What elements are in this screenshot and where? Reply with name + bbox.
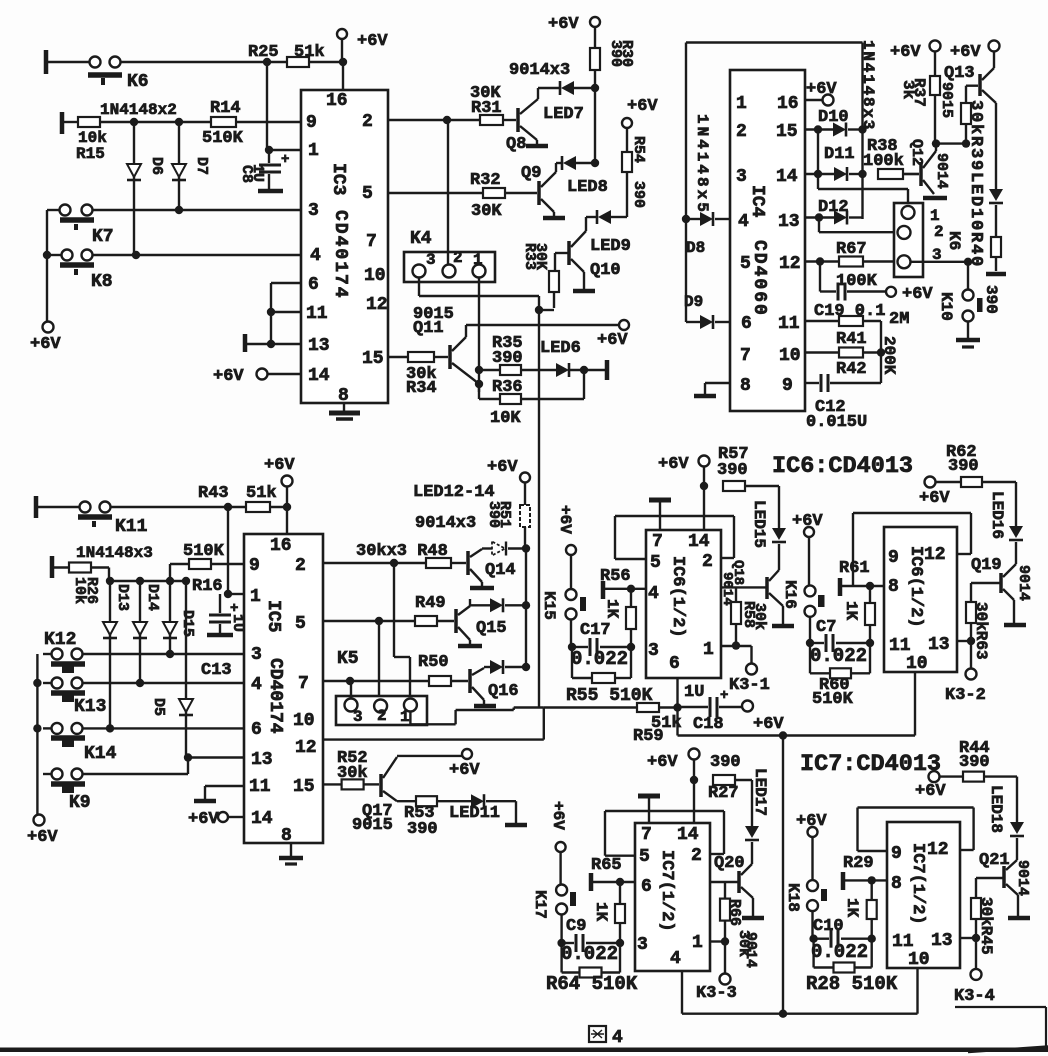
svg-text:6: 6	[669, 654, 680, 674]
svg-text:R54: R54	[630, 136, 647, 163]
IC4 pin13 row with D12	[805, 216, 834, 218]
svg-text:R14: R14	[210, 99, 241, 118]
LED9	[611, 216, 627, 218]
svg-text:+6V: +6V	[30, 335, 61, 354]
svg-text:K12: K12	[44, 630, 76, 650]
resistor R30 390 with +6V	[590, 17, 600, 27]
svg-text:1K: 1K	[603, 599, 621, 619]
capacitor C12 0.015U	[805, 382, 819, 384]
left +6V rail wire	[46, 210, 48, 322]
LED14	[484, 666, 490, 668]
wire pin1 row	[269, 149, 301, 151]
LED supply column	[525, 549, 527, 668]
svg-text:R61: R61	[839, 559, 870, 578]
svg-text:390: 390	[717, 461, 748, 480]
switch K11	[34, 496, 39, 518]
svg-text:5: 5	[362, 184, 373, 204]
svg-text:+6V: +6V	[919, 489, 950, 508]
svg-text:14: 14	[776, 167, 798, 187]
svg-text:390: 390	[982, 285, 1000, 314]
svg-text:6: 6	[308, 275, 319, 295]
svg-text:11: 11	[778, 314, 800, 334]
transistor Q11	[448, 345, 452, 369]
node pin2 K5 branch	[390, 559, 398, 567]
svg-text:1N4148x5: 1N4148x5	[693, 114, 711, 215]
svg-text:+6V: +6V	[357, 32, 388, 51]
resistor R48	[426, 558, 451, 568]
svg-text:1: 1	[250, 587, 261, 607]
svg-text:K16: K16	[781, 580, 799, 609]
svg-text:R16: R16	[192, 577, 223, 596]
wire to IC3 pin 16	[342, 62, 344, 90]
svg-text:R30: R30	[618, 40, 635, 67]
svg-text:C9: C9	[566, 917, 586, 936]
resistor R32 30K	[483, 188, 505, 198]
diode D7	[178, 122, 180, 210]
svg-text:LED11: LED11	[449, 804, 500, 823]
wire K5-3 stub	[350, 681, 352, 699]
IC6a pin6 stem	[676, 678, 678, 708]
resistor R49	[415, 616, 437, 626]
svg-text:+6V: +6V	[213, 367, 244, 386]
svg-text:6: 6	[741, 314, 752, 334]
svg-text:K3-3: K3-3	[696, 984, 737, 1003]
transistor Q9	[537, 181, 541, 205]
svg-text:13: 13	[778, 212, 800, 232]
switch K13	[52, 678, 63, 689]
node LED14	[522, 663, 530, 671]
switch K10	[967, 262, 969, 290]
wire Q17 collector +6V	[397, 755, 462, 757]
svg-text:510K: 510K	[183, 542, 225, 561]
svg-text:390: 390	[630, 181, 647, 208]
svg-text:9: 9	[249, 556, 260, 576]
node LED13	[522, 601, 530, 609]
svg-text:100K: 100K	[836, 272, 878, 291]
Q13 collector to +6V	[982, 68, 994, 80]
diode D14	[136, 577, 144, 585]
resistor R54 390 with +6V	[622, 118, 632, 128]
svg-text:3: 3	[736, 167, 747, 187]
svg-text:4: 4	[648, 584, 659, 604]
svg-text:LED15: LED15	[750, 500, 768, 548]
wire C18 node down to IC7 rail	[676, 708, 678, 736]
svg-text:K7: K7	[92, 227, 114, 247]
svg-text:4: 4	[251, 675, 262, 695]
svg-text:30kR45: 30kR45	[977, 897, 995, 955]
IC7a top rail bar	[638, 794, 660, 799]
wire K5-1 to main node	[409, 712, 411, 725]
wire R25 to +6V node	[309, 61, 343, 63]
svg-text:K5: K5	[337, 649, 359, 669]
svg-text:1U: 1U	[684, 683, 704, 702]
svg-text:5: 5	[639, 847, 650, 867]
resistor R41	[805, 351, 839, 353]
IC7b pin13 row to K3-4	[960, 937, 976, 939]
svg-text:1: 1	[400, 708, 410, 726]
svg-text:+6V: +6V	[647, 753, 678, 772]
svg-text:30kR39LED10R40: 30kR39LED10R40	[966, 100, 985, 268]
resistor 30k R63	[970, 583, 972, 602]
LED15	[772, 528, 786, 540]
node LED8	[591, 159, 599, 167]
svg-text:1K: 1K	[843, 898, 861, 918]
wire IC3 pin2 row	[388, 119, 480, 121]
svg-text:CD40174: CD40174	[330, 210, 350, 300]
svg-text:8: 8	[891, 874, 902, 894]
svg-text:D12: D12	[818, 198, 849, 217]
svg-text:390: 390	[710, 753, 741, 772]
IC7a feedback loop	[605, 810, 724, 812]
svg-text:Q15: Q15	[476, 619, 507, 638]
IC4 outer loop wire	[686, 41, 863, 43]
svg-text:IC3: IC3	[328, 163, 348, 195]
svg-text:C18: C18	[693, 715, 724, 734]
IC7a body	[635, 823, 710, 971]
resistor 30k R45	[975, 878, 977, 898]
capacitor C17 0.022	[600, 646, 631, 648]
resistor R16 510K	[169, 564, 171, 581]
resistor 1K	[619, 882, 621, 904]
node LED6 loop	[580, 366, 588, 374]
IC3 pins 6-11-13 tie	[271, 282, 301, 284]
svg-text:1: 1	[308, 141, 319, 161]
wire pin3 row	[47, 209, 60, 211]
resistor 1K	[869, 586, 871, 603]
IC6a feedback loop	[615, 515, 734, 517]
svg-text:2: 2	[453, 249, 463, 267]
svg-text:D8: D8	[686, 239, 705, 257]
diode D8	[682, 215, 690, 223]
svg-text:LED9: LED9	[590, 237, 631, 256]
svg-text:12: 12	[924, 545, 946, 565]
svg-text:LED18: LED18	[987, 785, 1005, 833]
svg-text:R36: R36	[492, 378, 523, 397]
svg-text:13: 13	[931, 931, 953, 951]
svg-text:390: 390	[492, 349, 523, 368]
LED8	[556, 162, 562, 164]
svg-text:0.022: 0.022	[810, 645, 867, 667]
ground at IC5 pin11	[205, 785, 244, 787]
svg-text:+: +	[720, 688, 728, 704]
svg-text:9014: 9014	[1014, 860, 1031, 896]
svg-text:12: 12	[366, 295, 388, 315]
ground at IC3 pin8	[343, 403, 345, 412]
node pin5 K5 branch	[375, 617, 383, 625]
svg-text:1N4148x3: 1N4148x3	[76, 544, 153, 562]
svg-text:LED7: LED7	[543, 105, 584, 124]
svg-text:2: 2	[295, 556, 306, 576]
svg-text:14: 14	[688, 532, 710, 552]
svg-text:D15: D15	[179, 610, 196, 637]
wire pin4 row	[47, 254, 61, 256]
resistor R14 510K	[211, 117, 236, 127]
node bottom rail	[779, 1010, 787, 1018]
resistor R26 10k	[50, 556, 55, 578]
svg-text:Q14: Q14	[485, 561, 516, 580]
svg-text:15: 15	[293, 777, 315, 797]
svg-text:R15: R15	[76, 145, 105, 163]
svg-text:390: 390	[959, 753, 990, 772]
svg-text:K8: K8	[91, 272, 113, 292]
svg-text:9014: 9014	[933, 153, 950, 189]
transistor Q10	[567, 241, 571, 265]
svg-text:100k: 100k	[863, 152, 904, 171]
resistor R67 100K	[839, 257, 863, 267]
resistor R43 51k	[246, 502, 270, 512]
node D13 pin6	[106, 724, 114, 732]
svg-text:R51: R51	[496, 501, 513, 528]
svg-text:9: 9	[306, 113, 317, 133]
capacitor C18 1U	[679, 706, 708, 708]
svg-text:+6V: +6V	[487, 458, 518, 477]
LED17	[745, 826, 759, 838]
resistor R25 51k	[287, 57, 309, 67]
svg-text:1: 1	[736, 94, 747, 114]
svg-text:13: 13	[251, 750, 273, 770]
svg-text:+6V: +6V	[27, 828, 58, 847]
wire K5-2 branch	[378, 621, 380, 700]
svg-text:+6V: +6V	[806, 80, 837, 99]
wire K5-1 branch from pin2	[393, 563, 395, 657]
left +6V rail	[36, 654, 38, 815]
svg-text:+6V: +6V	[658, 455, 689, 474]
node R65	[616, 878, 624, 886]
wire K4-1 branch	[478, 278, 480, 392]
resistor R31 30K	[480, 115, 503, 125]
node R61	[866, 582, 874, 590]
R62 390 with +6V	[925, 477, 936, 488]
node D6 top	[130, 118, 138, 126]
svg-text:200K: 200K	[880, 336, 898, 375]
svg-text:R43: R43	[198, 484, 229, 503]
svg-text:C17: C17	[580, 621, 611, 640]
svg-text:1: 1	[703, 640, 714, 660]
resistor R64 510K loop	[560, 943, 562, 973]
svg-text:K10: K10	[937, 292, 955, 321]
svg-text:13: 13	[928, 635, 950, 655]
resistor R35 390	[479, 369, 500, 371]
switch K14	[52, 723, 63, 734]
svg-text:12: 12	[779, 254, 801, 274]
resistor R34 30k	[388, 356, 408, 358]
ground after LED11	[515, 801, 517, 823]
svg-text:0.022: 0.022	[571, 648, 628, 670]
svg-text:30k: 30k	[751, 603, 768, 630]
wire Q11 collector +6V row	[466, 324, 619, 326]
IC6b feedback loop	[853, 512, 971, 514]
svg-text:R67: R67	[836, 240, 867, 259]
svg-text:510K: 510K	[202, 129, 244, 148]
capacitor C9 0.022	[586, 942, 620, 944]
svg-text:R29: R29	[843, 854, 874, 873]
resistor R38 100k	[878, 169, 903, 179]
svg-text:IC7:CD4013: IC7:CD4013	[800, 751, 941, 778]
ground at IC4 pin8	[705, 382, 730, 384]
svg-text:2: 2	[702, 552, 713, 572]
svg-text:9015: 9015	[938, 82, 955, 118]
+6V R27 390	[689, 749, 700, 760]
svg-text:15: 15	[776, 122, 798, 142]
svg-text:1N4148x2: 1N4148x2	[100, 101, 177, 119]
svg-text:12: 12	[295, 738, 317, 758]
LED18	[1010, 822, 1024, 834]
svg-text:+6V: +6V	[597, 331, 628, 350]
node R25-C8	[263, 58, 271, 66]
svg-text:2: 2	[362, 112, 373, 132]
svg-text:9014: 9014	[719, 572, 735, 606]
connector K4	[404, 252, 495, 282]
+6V bottom left terminal	[34, 815, 45, 826]
bottom border line	[0, 1048, 1048, 1053]
svg-text:7: 7	[652, 532, 663, 552]
LED16	[1009, 526, 1023, 538]
IC6a pin1 row to K3-1	[721, 645, 752, 647]
resistor R39	[961, 103, 971, 124]
IC4 pin15 row with D10	[805, 128, 833, 130]
LED12 dashed	[482, 547, 492, 549]
resistor R59 51k on main wire	[544, 706, 637, 708]
svg-text:K6: K6	[945, 231, 963, 250]
svg-text:LED6: LED6	[540, 339, 581, 358]
svg-text:K17: K17	[531, 890, 549, 919]
svg-text:4: 4	[612, 1028, 623, 1048]
svg-text:D10: D10	[818, 108, 849, 127]
switch K6	[44, 50, 49, 74]
svg-text:1K: 1K	[842, 601, 860, 621]
svg-text:+6V: +6V	[915, 782, 946, 801]
svg-text:16: 16	[270, 536, 292, 556]
node pin11	[868, 935, 876, 943]
svg-text:Q20: Q20	[714, 854, 745, 873]
svg-text:R59: R59	[633, 727, 664, 746]
svg-text:30k: 30k	[337, 764, 368, 783]
node pin3	[627, 643, 635, 651]
svg-text:5: 5	[650, 553, 661, 573]
svg-text:+: +	[281, 152, 289, 168]
R44 390 with +6V	[929, 771, 940, 782]
svg-text:CD40174: CD40174	[265, 658, 285, 734]
LED11	[471, 794, 484, 808]
node +6V pin16	[339, 58, 347, 66]
resistor R51 390 with +6V	[520, 473, 530, 483]
svg-text:8: 8	[888, 577, 899, 597]
IC4 pin12 row	[805, 260, 839, 262]
svg-text:10: 10	[908, 950, 930, 970]
transistor Q8	[516, 108, 520, 132]
IC3 CD40174 body	[301, 90, 388, 403]
caption figure 4	[589, 1026, 606, 1042]
svg-text:7: 7	[366, 232, 377, 252]
resistor R15 10k	[60, 112, 65, 134]
svg-text:D9: D9	[684, 293, 703, 311]
switch K18	[807, 880, 818, 891]
svg-text:IC4: IC4	[747, 185, 767, 218]
wire IC5 pin5 row	[323, 620, 415, 622]
svg-text:K14: K14	[84, 744, 117, 764]
svg-text:K6: K6	[127, 72, 149, 92]
wire to R36	[478, 384, 480, 399]
node pin1	[224, 590, 232, 598]
svg-text:16: 16	[777, 94, 799, 114]
node pin2 K4 branch	[443, 116, 451, 124]
svg-text:Q12: Q12	[908, 139, 925, 166]
svg-text:+6V: +6V	[264, 456, 295, 475]
Q13 emitter to LED10	[982, 90, 996, 103]
transistor Q17 9015	[379, 774, 383, 797]
svg-text:Q8: Q8	[506, 135, 526, 154]
node C8	[265, 146, 273, 154]
+6V supply top	[337, 29, 347, 39]
svg-text:1U: 1U	[229, 614, 246, 632]
diode D6	[133, 122, 135, 255]
svg-text:0.015U: 0.015U	[806, 413, 867, 432]
resistor R53 390	[397, 800, 416, 802]
svg-text:6: 6	[641, 877, 652, 897]
svg-text:390: 390	[948, 457, 979, 476]
node R57	[700, 482, 708, 490]
svg-text:R31: R31	[471, 99, 502, 118]
wire pin6 row	[43, 727, 51, 729]
svg-text:K3-1: K3-1	[729, 676, 770, 695]
LED13	[490, 598, 503, 612]
svg-text:9014: 9014	[742, 932, 759, 968]
svg-text:+6V: +6V	[188, 810, 219, 829]
wire LED7-LED8	[594, 88, 596, 163]
svg-text:15: 15	[362, 349, 384, 369]
node D7 bottom	[175, 206, 183, 214]
wire pin2 to K4-2	[447, 120, 449, 264]
svg-text:3: 3	[637, 935, 648, 955]
svg-text:R37: R37	[910, 78, 928, 107]
node Q11 emitter	[475, 380, 483, 388]
svg-text:1N4148x3: 1N4148x3	[859, 40, 877, 131]
svg-text:11: 11	[892, 932, 914, 952]
svg-text:K3-4: K3-4	[954, 987, 995, 1006]
svg-text:IC6:CD4013: IC6:CD4013	[772, 453, 913, 480]
resistor R66 30k	[724, 882, 726, 899]
svg-text:2: 2	[736, 122, 747, 142]
resistor R28 510K loop	[812, 939, 814, 968]
+6V at IC5 pin14	[218, 812, 228, 822]
connector K5 box	[336, 696, 427, 725]
IC6b pin13 row to K3-2	[957, 640, 971, 642]
resistor R36 10K	[479, 398, 500, 400]
svg-text:2: 2	[934, 223, 944, 241]
svg-text:30kR63: 30kR63	[972, 602, 990, 660]
wire R37 node to R39 node	[936, 142, 966, 144]
svg-text:IC5: IC5	[263, 600, 283, 632]
svg-text:C13: C13	[201, 661, 232, 680]
wire IC5 pin12 row	[323, 738, 544, 740]
+6V R57 390	[699, 456, 710, 467]
node main R59	[673, 703, 681, 711]
vertical link rail	[782, 736, 784, 1014]
wire K6 to R25	[120, 61, 287, 63]
svg-text:4: 4	[670, 949, 681, 969]
switch K17	[556, 885, 567, 896]
svg-text:10K: 10K	[490, 409, 521, 428]
svg-text:LED17: LED17	[751, 768, 769, 816]
svg-text:9014: 9014	[1015, 565, 1032, 601]
terminal after LED6	[605, 360, 610, 380]
svg-text:D5: D5	[150, 698, 167, 716]
svg-text:11: 11	[249, 777, 271, 797]
svg-text:D14: D14	[144, 584, 161, 611]
IC6b body	[884, 527, 957, 672]
LED10	[989, 189, 1003, 201]
svg-text:K15: K15	[540, 591, 558, 620]
